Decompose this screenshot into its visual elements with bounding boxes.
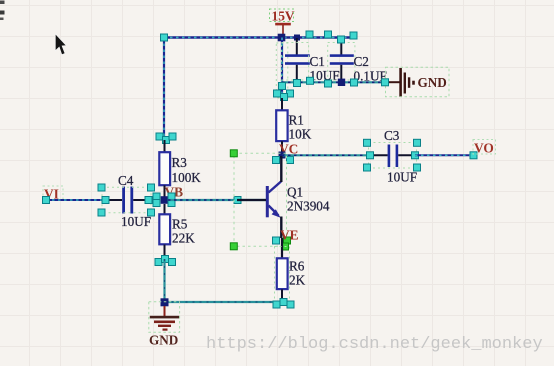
wire: ground rail to R6 (165, 301, 283, 303)
handles on decoupling rail (274, 77, 358, 100)
handles at R3 top (156, 133, 176, 144)
capacitor C1 (281, 38, 339, 83)
svg-text:R6: R6 (289, 259, 305, 274)
svg-text:2N3904: 2N3904 (287, 199, 330, 214)
capacitor C4 (98, 173, 155, 229)
svg-text:10K: 10K (289, 127, 312, 142)
wire: C3 to VO (415, 152, 477, 159)
net label VB (165, 185, 184, 200)
svg-text:Q1: Q1 (287, 185, 303, 200)
svg-text:100K: 100K (172, 170, 202, 185)
green handles on Q1 selection box (230, 150, 237, 250)
svg-text:10UF: 10UF (387, 170, 417, 185)
wire: top rail from left corner to C2 end (164, 36, 353, 38)
handles at R6 bottom (273, 299, 294, 309)
wire: VB to Q1 base (168, 197, 266, 204)
svg-text:R5: R5 (172, 217, 188, 232)
capacitor C3 (364, 128, 421, 185)
power port GND (top right) (382, 67, 450, 97)
transistor Q1 (234, 153, 330, 246)
wire: VI to C4 (43, 197, 106, 204)
wire: vertical from top rail down to R1 (276, 38, 288, 99)
svg-text:GND: GND (149, 333, 178, 348)
svg-text:C1: C1 (310, 54, 325, 69)
svg-text:C2: C2 (354, 54, 369, 69)
svg-text:R3: R3 (172, 155, 188, 170)
power port GND (bottom) (149, 302, 180, 348)
junction at C1 top (294, 35, 300, 41)
partial glyph at left edge (0, 1, 5, 21)
svg-text:GND: GND (418, 75, 447, 90)
wire: R5 to ground rail (163, 259, 165, 302)
junction at VC (279, 152, 286, 159)
net label VO (473, 140, 496, 156)
resistor R6 (275, 238, 306, 303)
power port 15V (270, 9, 295, 38)
junction at ground rail (161, 298, 169, 306)
junction at 15V / top rail (278, 34, 286, 42)
svg-text:22K: 22K (172, 231, 195, 246)
handles on top rail (161, 31, 358, 43)
junction at C2 bottom (338, 79, 345, 86)
handles at VC (273, 157, 294, 164)
wire: left vertical drop to R3 (163, 38, 165, 141)
svg-text:C4: C4 (118, 173, 134, 188)
net label VE (280, 228, 299, 243)
handles at R5 bottom (155, 256, 176, 266)
watermark (206, 335, 552, 354)
wire: decoupling bottom rail to GND (282, 81, 385, 83)
resistor R1 (276, 98, 311, 153)
wire: VC to C3 (282, 154, 369, 156)
svg-text:C3: C3 (384, 128, 400, 143)
handles at VB (153, 193, 175, 207)
mouse cursor (55, 34, 66, 55)
svg-text:R1: R1 (289, 113, 304, 128)
svg-text:2K: 2K (289, 273, 306, 288)
capacitor C2 (328, 38, 387, 84)
net label VC (279, 142, 298, 157)
net label VI (43, 186, 63, 202)
resistor R5 (159, 204, 195, 258)
svg-text:10UF: 10UF (121, 214, 151, 229)
resistor R3 (159, 140, 201, 197)
junction at VB (161, 196, 169, 204)
handles at VE (273, 237, 291, 250)
svg-text:VO: VO (474, 141, 494, 156)
